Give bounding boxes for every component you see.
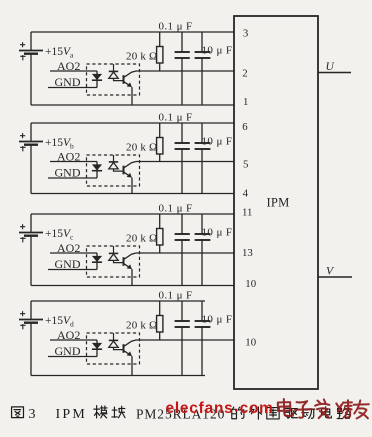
wire mid rail (drive signal) block 2 — [136, 161, 234, 163]
svg-text:10 μ F: 10 μ F — [202, 313, 233, 325]
wire bottom 0V rail block 4 — [31, 375, 205, 377]
caption char: dian (electric) — [322, 407, 332, 418]
svg-text:3: 3 — [243, 28, 248, 40]
capacitor 10 uF block 3 — [201, 214, 203, 234]
svg-text:elecfans.com: elecfans.com — [166, 399, 274, 418]
battery +15Vd block 4 — [30, 301, 32, 320]
svg-text:20 k Ω: 20 k Ω — [126, 233, 157, 245]
wire emitter to bottom rail block 2 — [131, 178, 133, 194]
resistor 20 kOhm block 2 — [159, 123, 161, 138]
optocoupler photodiode block 1 — [113, 64, 115, 71]
svg-text:GND: GND — [55, 75, 81, 89]
svg-text:AO2: AO2 — [57, 241, 80, 255]
wire bottom 0V rail block 3 — [31, 285, 234, 287]
svg-text:AO2: AO2 — [57, 59, 80, 73]
wire V phase output — [318, 276, 352, 278]
caption char: lu (circuit) — [337, 407, 350, 418]
svg-text:4: 4 — [243, 188, 249, 200]
optocoupler photodiode block 4 — [113, 333, 115, 340]
svg-text:20 k Ω: 20 k Ω — [126, 142, 157, 154]
svg-text:+15Vd: +15Vd — [45, 315, 74, 328]
wire AO2 input block 3 — [50, 252, 97, 254]
svg-text:IPM: IPM — [267, 196, 290, 210]
svg-text:10 μ F: 10 μ F — [202, 226, 233, 238]
battery plus mark block 4 — [20, 311, 25, 316]
optocoupler LED block 4 — [96, 340, 98, 357]
optocoupler LED block 2 — [96, 162, 98, 179]
battery +15Va block 1 — [30, 32, 32, 51]
resistor 20 kOhm block 4 — [159, 301, 161, 316]
svg-text:13: 13 — [242, 247, 253, 259]
wire top +15V rail block 4 — [31, 300, 205, 302]
wire mid rail (drive signal) block 1 — [136, 70, 234, 72]
svg-text:5: 5 — [243, 159, 248, 171]
optocoupler U4 dashed box — [87, 333, 140, 364]
capacitor 10 uF block 4 — [201, 301, 203, 321]
optocoupler U1 dashed box — [87, 64, 140, 95]
optocoupler photodiode block 3 — [113, 246, 115, 253]
caption char: dong (drive) — [302, 409, 315, 418]
svg-text:10: 10 — [245, 337, 256, 349]
wire emitter to bottom rail block 1 — [131, 87, 133, 105]
wire GND input block 2 — [48, 177, 97, 179]
capacitor 0.1 uF block 2 — [181, 123, 183, 143]
optocoupler phototransistor block 4 — [123, 344, 125, 353]
battery minus mark block 2 — [20, 146, 25, 151]
wire emitter to bottom rail block 3 — [131, 269, 133, 285]
wire GND input block 1 — [48, 87, 97, 89]
svg-text:+15Va: +15Va — [45, 46, 74, 59]
battery plus mark block 1 — [20, 42, 25, 47]
svg-text:+15Vc: +15Vc — [45, 228, 74, 241]
watermark script char: zi — [295, 401, 312, 418]
wire top +15V rail block 1 — [31, 31, 234, 33]
battery minus mark block 3 — [20, 237, 25, 242]
IPM module box U5 — [234, 16, 318, 389]
optocoupler LED block 1 — [96, 71, 98, 88]
caption char: qu (drive) — [285, 408, 298, 418]
battery plus mark block 2 — [20, 133, 25, 138]
resistor 20 kOhm block 1 — [159, 32, 161, 47]
caption char: wei (periphery) — [267, 408, 279, 419]
wire emitter to bottom rail block 4 — [131, 356, 133, 375]
svg-text:11: 11 — [242, 207, 252, 219]
resistor 20 kOhm block 3 — [159, 214, 161, 229]
wire GND input block 3 — [48, 269, 97, 271]
svg-text:20 k Ω: 20 k Ω — [126, 320, 157, 332]
svg-text:3: 3 — [29, 407, 36, 422]
optocoupler photodiode block 2 — [113, 155, 115, 162]
caption char: kuai (module) — [112, 406, 125, 418]
caption char: mo (module) — [94, 406, 107, 418]
svg-text:10 μ F: 10 μ F — [202, 44, 233, 56]
caption char: wai (outer) — [250, 407, 262, 419]
capacitor 10 uF block 2 — [201, 123, 203, 143]
wire bottom 0V rail block 1 — [31, 104, 234, 106]
svg-text:AO2: AO2 — [57, 328, 80, 342]
svg-text:U: U — [326, 61, 335, 73]
wire AO2 input block 2 — [50, 161, 97, 163]
svg-text:0.1 μ F: 0.1 μ F — [159, 21, 193, 33]
wire AO2 input block 1 — [50, 70, 97, 72]
battery plus mark block 3 — [20, 224, 25, 229]
capacitor 10 uF block 1 — [201, 32, 203, 52]
watermark script char: dian — [278, 399, 293, 417]
wire top +15V rail block 2 — [31, 122, 234, 124]
svg-text:GND: GND — [55, 344, 81, 358]
svg-text:10 μ F: 10 μ F — [202, 135, 233, 147]
caption char: de — [232, 407, 244, 419]
svg-text:0.1 μ F: 0.1 μ F — [159, 203, 193, 215]
svg-text:10: 10 — [245, 278, 256, 290]
svg-text:20 k Ω: 20 k Ω — [126, 51, 157, 63]
watermark script char: you — [354, 400, 370, 419]
capacitor 0.1 uF block 4 — [181, 301, 183, 321]
svg-text:IPM: IPM — [56, 407, 88, 422]
svg-text:2: 2 — [242, 68, 247, 80]
svg-text:GND: GND — [55, 166, 81, 180]
svg-text:6: 6 — [242, 121, 248, 133]
optocoupler LED block 3 — [96, 253, 98, 270]
wire mid rail (drive signal) block 3 — [136, 252, 234, 254]
capacitor 0.1 uF block 3 — [181, 214, 183, 234]
battery minus mark block 4 — [20, 324, 25, 329]
wire AO2 input block 4 — [50, 339, 97, 341]
wire U phase output — [318, 72, 351, 74]
svg-text:1: 1 — [243, 96, 248, 108]
battery +15Vc block 3 — [30, 214, 32, 233]
optocoupler U2 dashed box — [87, 155, 140, 186]
battery +15Vb block 2 — [30, 123, 32, 142]
wire top +15V rail block 3 — [31, 213, 234, 215]
svg-text:AO2: AO2 — [57, 149, 80, 163]
watermark script char: shao — [336, 400, 352, 418]
wire GND input block 4 — [48, 356, 97, 358]
watermark script char: fa — [315, 399, 330, 418]
battery minus mark block 1 — [20, 55, 25, 60]
caption char: tu (figure) — [12, 407, 24, 418]
capacitor 0.1 uF block 1 — [181, 32, 183, 52]
svg-text:0.1 μ F: 0.1 μ F — [159, 112, 193, 124]
optocoupler phototransistor block 3 — [123, 257, 125, 266]
wire mid rail (drive signal) block 4 — [136, 339, 234, 341]
optocoupler phototransistor block 1 — [123, 75, 125, 84]
svg-text:0.1 μ F: 0.1 μ F — [159, 290, 193, 302]
wire bottom 0V rail block 2 — [31, 193, 234, 195]
svg-text:GND: GND — [55, 257, 81, 271]
optocoupler U3 dashed box — [87, 246, 140, 277]
optocoupler phototransistor block 2 — [123, 166, 125, 175]
